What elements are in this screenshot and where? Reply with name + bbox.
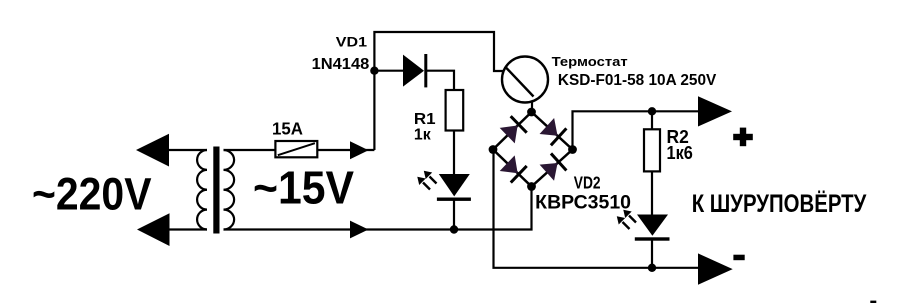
svg-text:15A: 15A	[272, 119, 303, 139]
svg-text:1к6: 1к6	[667, 143, 693, 164]
svg-text:KSD-F01-58 10A 250V: KSD-F01-58 10A 250V	[558, 72, 717, 89]
svg-text:К ШУРУПОВЁРТУ: К ШУРУПОВЁРТУ	[692, 190, 867, 218]
svg-text:~220V: ~220V	[32, 169, 152, 220]
svg-text:КВРС3510: КВРС3510	[535, 193, 631, 214]
svg-text:1к: 1к	[414, 127, 431, 144]
svg-text:VD1: VD1	[336, 34, 367, 50]
svg-text:R1: R1	[414, 111, 436, 128]
svg-text:~15V: ~15V	[253, 162, 354, 214]
svg-text:1N4148: 1N4148	[312, 56, 370, 73]
svg-text:Термостат: Термостат	[552, 54, 628, 69]
svg-text:VD2: VD2	[574, 173, 601, 193]
